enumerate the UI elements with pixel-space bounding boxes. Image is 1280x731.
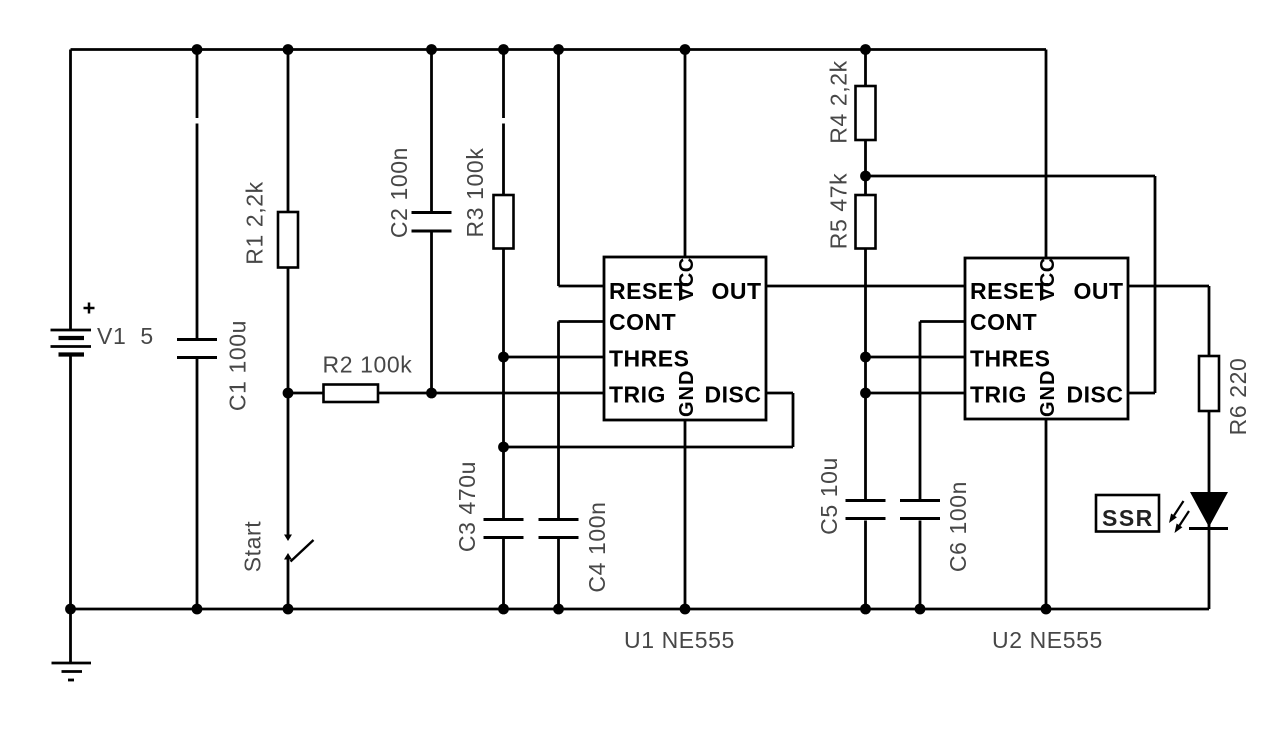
- wire R4-R5 node to DISC vertical: [866, 175, 1156, 178]
- svg-text:V1 5: V1 5: [97, 323, 154, 349]
- wire U1 CONT to C4: [559, 320, 605, 323]
- wire U2 VCC from rail corner: [1045, 50, 1048, 259]
- wire R1 upper: [287, 50, 290, 213]
- wire U1 GND: [684, 420, 687, 609]
- wire U1 DISC return horizontal: [504, 446, 794, 449]
- resistor R1: [278, 212, 298, 268]
- capacitor C5: [846, 501, 886, 519]
- svg-text:TRIG: TRIG: [609, 382, 666, 408]
- wire U1 RESET from rail: [557, 50, 560, 287]
- U1 pin VCC: [676, 257, 698, 301]
- resistor R6: [1199, 356, 1219, 411]
- wire R5 lower through THRES TRIG nodes to C5: [864, 249, 867, 501]
- wire R2 left lead: [288, 392, 324, 395]
- junction dots middle nodes: [283, 171, 871, 453]
- svg-text:GND: GND: [1037, 370, 1059, 417]
- LED light arrow 2: [1175, 511, 1190, 533]
- wire top supply rail: [71, 48, 1047, 51]
- svg-text:C5 10u: C5 10u: [816, 457, 842, 535]
- svg-text:CONT: CONT: [609, 309, 676, 335]
- svg-text:U1 NE555: U1 NE555: [624, 627, 735, 653]
- wire C2 lower to TRIG wire: [430, 232, 433, 393]
- LED D1 triangle: [1190, 492, 1228, 527]
- svg-text:R4 2,2k: R4 2,2k: [826, 60, 852, 143]
- wire U2 GND: [1045, 419, 1048, 609]
- capacitor C3: [484, 520, 524, 538]
- wire U1 OUT to U2 RESET: [766, 285, 965, 288]
- resistor R4: [856, 86, 876, 140]
- svg-text:R3 100k: R3 100k: [462, 148, 488, 238]
- op-amp U2 box: [965, 258, 1128, 419]
- svg-text:OUT: OUT: [1073, 278, 1123, 304]
- capacitor C2: [412, 213, 452, 232]
- op-amp U1 box: [604, 257, 766, 420]
- junction dots bottom rail: [65, 604, 1051, 615]
- svg-text:OUT: OUT: [711, 278, 761, 304]
- svg-text:Start: Start: [240, 521, 266, 573]
- svg-text:CONT: CONT: [970, 309, 1037, 335]
- ground symbol bars: [52, 663, 92, 680]
- svg-text:C4 100n: C4 100n: [584, 501, 610, 592]
- svg-text:R6 220: R6 220: [1225, 358, 1251, 436]
- wire U2 TRIG: [866, 392, 966, 395]
- U2 pin VCC: [1037, 257, 1059, 301]
- wire R3 lower through THRES and DISC nodes to C3: [502, 249, 505, 519]
- capacitor C4: [539, 520, 579, 538]
- svg-text:R5 47k: R5 47k: [826, 173, 852, 249]
- svg-text:THRES: THRES: [609, 346, 689, 372]
- resistor R3: [494, 195, 514, 249]
- LED light arrow 1: [1169, 501, 1184, 523]
- ground symbol stem: [69, 609, 72, 663]
- svg-text:C3 470u: C3 470u: [454, 461, 480, 552]
- wire C2 upper: [430, 50, 433, 212]
- svg-text:DISC: DISC: [1067, 382, 1124, 408]
- wire switch upper lead: [287, 393, 290, 536]
- svg-text:C2 100n: C2 100n: [386, 147, 412, 238]
- svg-text:VCC: VCC: [676, 257, 698, 301]
- wire bottom ground rail: [71, 608, 1210, 611]
- capacitor C1: [177, 340, 217, 358]
- capacitor C6: [900, 501, 940, 519]
- wire U1 VCC: [684, 50, 687, 258]
- svg-text:C6 100n: C6 100n: [945, 481, 971, 572]
- wire U2 DISC vertical: [1128, 392, 1155, 395]
- svg-text:GND: GND: [676, 370, 698, 417]
- wire R4 upper: [864, 50, 867, 87]
- wire R6 to LED to bottom rail: [1208, 411, 1211, 609]
- wire U2 OUT to R6: [1128, 285, 1209, 288]
- svg-text:U2 NE555: U2 NE555: [992, 627, 1103, 653]
- svg-text:VCC: VCC: [1037, 257, 1059, 301]
- switch Start arrows and blade: [284, 535, 314, 562]
- resistor R5: [856, 195, 876, 249]
- svg-text:C1 100u: C1 100u: [225, 320, 251, 411]
- svg-text:R2 100k: R2 100k: [323, 352, 413, 378]
- junction dots top rail: [192, 44, 871, 55]
- svg-text:TRIG: TRIG: [970, 382, 1027, 408]
- wire battery to bottom rail: [69, 355, 72, 610]
- wire C1 upper: [196, 50, 199, 119]
- svg-text:SSR: SSR: [1102, 505, 1154, 531]
- wire U1 DISC stub and bend: [766, 392, 793, 395]
- wire U2 THRES: [866, 356, 966, 359]
- SSR box: [1096, 495, 1159, 532]
- wire U2 CONT to C6: [920, 320, 965, 323]
- wire C5 lower: [864, 521, 867, 610]
- LED D1 cathode bar: [1189, 527, 1228, 530]
- svg-text:R1 2,2k: R1 2,2k: [242, 181, 268, 264]
- wire R1 lower to TRIG node: [287, 268, 290, 394]
- wire R2 to U1 TRIG: [378, 392, 604, 395]
- resistor R2: [324, 385, 379, 403]
- wire left vertical from rail to battery: [69, 50, 72, 332]
- wire C6 lower: [919, 521, 922, 610]
- svg-text:THRES: THRES: [970, 346, 1050, 372]
- wire switch lower lead: [287, 559, 290, 609]
- wire R3 upper: [502, 50, 505, 119]
- battery V1: [51, 303, 95, 355]
- wire C4 lower: [557, 539, 560, 610]
- wire C3 lower: [502, 539, 505, 610]
- wire R4-R5 junction vertical: [864, 140, 867, 195]
- wire U1 THRES: [504, 356, 605, 359]
- wire C1 lower: [196, 359, 199, 610]
- svg-text:DISC: DISC: [705, 382, 762, 408]
